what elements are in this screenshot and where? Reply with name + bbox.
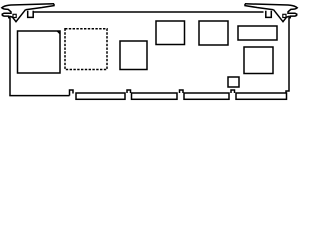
socket section 3 [184, 93, 229, 99]
right socket post tab [266, 11, 272, 18]
right latch pivot hole [283, 14, 286, 17]
socket section 2 [132, 93, 178, 99]
socket section 1 [76, 93, 125, 99]
socket nub 3 [231, 90, 235, 93]
left socket post tab [28, 11, 34, 18]
socket key bump left [70, 90, 74, 96]
IC U2 dashed outline [65, 29, 107, 70]
IC U7 [244, 47, 273, 74]
IC U4 [156, 21, 185, 45]
IC U8 small [228, 77, 239, 87]
socket section 4 [236, 93, 287, 99]
IC U3 [120, 41, 147, 70]
IC U6 wide [238, 26, 277, 40]
IC U5 [199, 21, 228, 45]
socket nub 1 [127, 90, 131, 93]
IC U1 large square [18, 31, 61, 73]
socket nub 2 [180, 90, 184, 93]
left latch pivot hole [13, 14, 16, 17]
right ejector latch lever [245, 4, 297, 22]
module right edge [286, 18, 289, 93]
module left edge [9, 18, 11, 96]
module top edge [34, 11, 264, 13]
IC U1 pin-1 corner notch [57, 32, 60, 35]
left ejector latch lever [2, 4, 54, 22]
module bottom edge [9, 95, 69, 97]
